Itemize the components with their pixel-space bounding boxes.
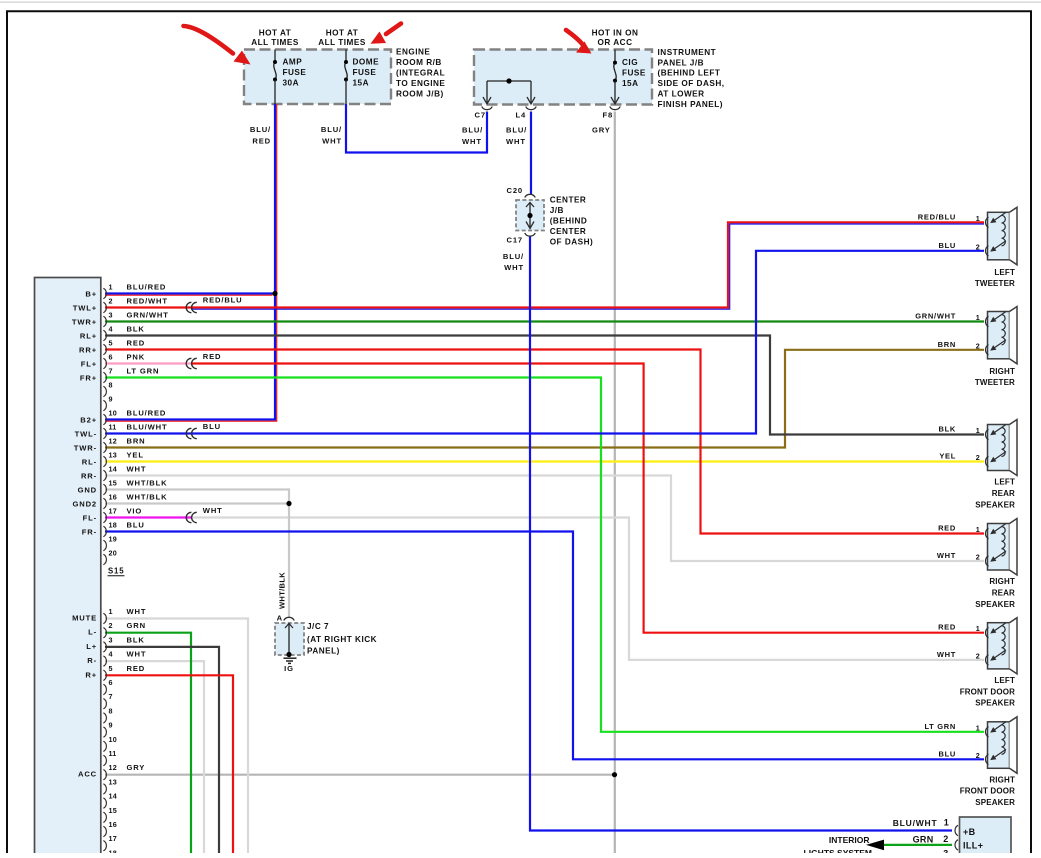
svg-text:1: 1 — [976, 313, 980, 322]
svg-text:L+: L+ — [86, 642, 97, 651]
svg-text:6: 6 — [109, 678, 113, 687]
svg-text:13: 13 — [109, 451, 117, 460]
svg-text:BLU/: BLU/ — [503, 252, 524, 261]
svg-text:9: 9 — [109, 395, 113, 404]
svg-text:BLK: BLK — [127, 325, 145, 334]
svg-text:ILL+: ILL+ — [963, 841, 983, 851]
svg-text:INTERIOR: INTERIOR — [829, 835, 870, 845]
svg-text:16: 16 — [109, 493, 117, 502]
svg-text:LEFT: LEFT — [994, 478, 1015, 487]
svg-text:18: 18 — [109, 848, 117, 853]
svg-text:SPEAKER: SPEAKER — [975, 699, 1015, 708]
svg-text:11: 11 — [109, 423, 117, 432]
svg-text:C7: C7 — [475, 111, 486, 120]
svg-text:20: 20 — [109, 549, 117, 558]
svg-text:FRONT DOOR: FRONT DOOR — [960, 687, 1015, 696]
svg-text:WHT: WHT — [937, 551, 956, 560]
svg-text:FUSE: FUSE — [353, 68, 377, 77]
svg-text:GRN/WHT: GRN/WHT — [127, 311, 169, 320]
svg-text:R+: R+ — [85, 670, 97, 679]
svg-text:LEFT: LEFT — [994, 268, 1015, 277]
svg-text:1: 1 — [976, 525, 980, 534]
svg-text:AT LOWER: AT LOWER — [658, 89, 705, 98]
svg-text:BLU: BLU — [938, 749, 956, 758]
svg-text:WHT: WHT — [322, 136, 342, 145]
svg-text:(BEHIND: (BEHIND — [550, 216, 588, 225]
svg-text:BLU/: BLU/ — [506, 125, 527, 134]
svg-text:5: 5 — [109, 339, 113, 348]
svg-text:2: 2 — [976, 651, 980, 660]
svg-text:TWL+: TWL+ — [73, 304, 97, 313]
svg-text:GRN: GRN — [127, 621, 146, 630]
svg-text:(INTEGRAL: (INTEGRAL — [396, 68, 445, 77]
svg-text:3: 3 — [109, 635, 113, 644]
svg-text:15A: 15A — [622, 79, 639, 88]
svg-text:17: 17 — [109, 834, 117, 843]
svg-text:RIGHT: RIGHT — [989, 775, 1015, 784]
svg-text:19: 19 — [109, 535, 117, 544]
svg-text:RED: RED — [938, 524, 956, 533]
svg-text:A: A — [277, 613, 283, 622]
svg-text:RED: RED — [252, 136, 271, 145]
svg-text:ALL TIMES: ALL TIMES — [318, 38, 366, 47]
svg-text:3: 3 — [943, 849, 948, 854]
svg-text:WHT: WHT — [462, 137, 482, 146]
svg-text:R-: R- — [87, 656, 97, 665]
svg-text:BLU/: BLU/ — [462, 125, 483, 134]
svg-text:2: 2 — [976, 341, 980, 350]
svg-text:TWR-: TWR- — [74, 444, 97, 453]
svg-text:ROOM J/B): ROOM J/B) — [396, 89, 444, 98]
svg-text:RED: RED — [127, 664, 146, 673]
svg-text:LIGHTS SYSTEM: LIGHTS SYSTEM — [804, 848, 872, 853]
svg-text:YEL: YEL — [127, 451, 144, 460]
svg-text:3: 3 — [109, 311, 113, 320]
svg-text:ALL TIMES: ALL TIMES — [251, 38, 299, 47]
svg-text:MUTE: MUTE — [72, 614, 97, 623]
svg-text:OF DASH): OF DASH) — [550, 237, 594, 246]
svg-text:LEFT: LEFT — [994, 676, 1015, 685]
svg-text:BLU/RED: BLU/RED — [127, 409, 167, 418]
svg-text:WHT: WHT — [504, 263, 524, 272]
svg-text:10: 10 — [109, 735, 117, 744]
svg-text:BLU/WHT: BLU/WHT — [127, 423, 168, 432]
svg-text:RL-: RL- — [82, 458, 97, 467]
svg-text:J/B: J/B — [550, 206, 564, 215]
svg-text:9: 9 — [109, 721, 113, 730]
svg-text:REAR: REAR — [992, 588, 1015, 597]
svg-text:HOT AT: HOT AT — [259, 28, 292, 37]
svg-text:4: 4 — [109, 650, 113, 659]
svg-text:AMP: AMP — [283, 58, 303, 67]
svg-text:12: 12 — [109, 763, 117, 772]
svg-text:SIDE OF DASH,: SIDE OF DASH, — [658, 79, 725, 88]
svg-text:WHT: WHT — [127, 607, 147, 616]
svg-text:PNK: PNK — [127, 353, 146, 362]
svg-text:RED: RED — [203, 352, 222, 361]
svg-text:2: 2 — [976, 553, 980, 562]
svg-text:1: 1 — [109, 283, 113, 292]
svg-text:BLU: BLU — [938, 241, 956, 250]
svg-text:IG: IG — [284, 664, 294, 673]
svg-text:BRN: BRN — [127, 437, 146, 446]
svg-text:1: 1 — [976, 723, 980, 732]
svg-text:GRY: GRY — [592, 125, 611, 134]
svg-text:BLK: BLK — [127, 635, 145, 644]
svg-text:SPEAKER: SPEAKER — [975, 798, 1015, 807]
svg-text:2: 2 — [976, 751, 980, 760]
svg-text:TWEETER: TWEETER — [975, 378, 1015, 387]
svg-text:RL+: RL+ — [80, 332, 97, 341]
svg-text:8: 8 — [109, 381, 113, 390]
svg-text:BLU/: BLU/ — [321, 125, 342, 134]
svg-text:1: 1 — [976, 624, 980, 633]
svg-text:BLU/RED: BLU/RED — [127, 283, 167, 292]
svg-text:J/C 7: J/C 7 — [307, 622, 329, 631]
svg-text:15: 15 — [109, 479, 117, 488]
svg-text:GRN: GRN — [913, 834, 934, 844]
svg-text:1: 1 — [109, 607, 113, 616]
svg-text:GRY: GRY — [127, 763, 146, 772]
svg-text:WHT: WHT — [127, 650, 147, 659]
svg-text:WHT: WHT — [506, 137, 526, 146]
svg-text:GRN/WHT: GRN/WHT — [915, 312, 956, 321]
svg-text:11: 11 — [109, 749, 117, 758]
svg-text:B+: B+ — [85, 290, 97, 299]
svg-text:(AT RIGHT KICK: (AT RIGHT KICK — [307, 635, 377, 644]
svg-text:FINISH PANEL): FINISH PANEL) — [658, 100, 723, 109]
svg-text:FL+: FL+ — [81, 360, 97, 369]
svg-text:BLU: BLU — [127, 521, 145, 530]
svg-text:C20: C20 — [507, 186, 523, 195]
svg-text:14: 14 — [109, 792, 117, 801]
svg-text:1: 1 — [944, 818, 949, 828]
svg-text:13: 13 — [109, 777, 117, 786]
svg-text:RR-: RR- — [81, 472, 97, 481]
svg-text:15A: 15A — [353, 79, 370, 88]
svg-text:CENTER: CENTER — [550, 195, 587, 204]
svg-text:INSTRUMENT: INSTRUMENT — [658, 48, 717, 57]
svg-text:RED/BLU: RED/BLU — [918, 212, 956, 221]
svg-text:FUSE: FUSE — [283, 68, 307, 77]
svg-text:CIG: CIG — [622, 58, 638, 67]
svg-text:B2+: B2+ — [80, 416, 97, 425]
svg-text:BLU: BLU — [203, 422, 221, 431]
svg-text:WHT: WHT — [203, 506, 223, 515]
svg-text:18: 18 — [109, 521, 117, 530]
svg-text:GND: GND — [78, 486, 97, 495]
svg-text:14: 14 — [109, 465, 117, 474]
svg-text:2: 2 — [976, 242, 980, 251]
svg-text:WHT: WHT — [127, 465, 147, 474]
svg-text:RED/BLU: RED/BLU — [203, 296, 243, 305]
svg-text:RED: RED — [938, 623, 956, 632]
svg-text:FRONT DOOR: FRONT DOOR — [960, 787, 1015, 796]
svg-text:LT GRN: LT GRN — [924, 722, 956, 731]
svg-text:GND2: GND2 — [73, 500, 98, 509]
svg-text:12: 12 — [109, 437, 117, 446]
svg-text:SPEAKER: SPEAKER — [975, 500, 1015, 509]
svg-text:F8: F8 — [603, 111, 614, 120]
svg-text:SPEAKER: SPEAKER — [975, 600, 1015, 609]
svg-text:L-: L- — [88, 628, 97, 637]
svg-text:C17: C17 — [507, 236, 523, 245]
svg-text:CENTER: CENTER — [550, 227, 587, 236]
svg-text:ROOM R/B: ROOM R/B — [396, 58, 442, 67]
svg-text:YEL: YEL — [939, 452, 956, 461]
svg-text:HOT AT: HOT AT — [326, 28, 359, 37]
svg-text:4: 4 — [109, 325, 113, 334]
svg-text:WHT: WHT — [937, 650, 956, 659]
svg-text:15: 15 — [109, 806, 117, 815]
svg-text:VIO: VIO — [127, 507, 143, 516]
svg-text:1: 1 — [976, 214, 980, 223]
svg-text:2: 2 — [976, 453, 980, 462]
svg-text:PANEL): PANEL) — [307, 646, 340, 655]
svg-text:PANEL J/B: PANEL J/B — [658, 58, 705, 67]
svg-text:TWL-: TWL- — [75, 430, 97, 439]
svg-text:8: 8 — [109, 706, 113, 715]
svg-text:RIGHT: RIGHT — [989, 367, 1015, 376]
svg-text:FUSE: FUSE — [622, 69, 646, 78]
svg-text:10: 10 — [109, 409, 117, 418]
svg-text:TWEETER: TWEETER — [975, 279, 1015, 288]
svg-text:16: 16 — [109, 820, 117, 829]
svg-text:1: 1 — [976, 426, 980, 435]
svg-text:REAR: REAR — [992, 489, 1015, 498]
svg-text:30A: 30A — [283, 79, 300, 88]
svg-text:TO ENGINE: TO ENGINE — [396, 79, 445, 88]
svg-text:FL-: FL- — [83, 514, 97, 523]
svg-text:RED: RED — [127, 339, 146, 348]
svg-text:WHT/BLK: WHT/BLK — [278, 572, 287, 609]
svg-text:FR+: FR+ — [80, 374, 97, 383]
svg-text:ACC: ACC — [78, 770, 97, 779]
svg-text:WHT/BLK: WHT/BLK — [127, 479, 168, 488]
svg-text:ENGINE: ENGINE — [396, 47, 430, 56]
svg-text:(BEHIND LEFT: (BEHIND LEFT — [658, 69, 721, 78]
svg-text:LT GRN: LT GRN — [127, 367, 160, 376]
svg-text:2: 2 — [109, 621, 113, 630]
svg-text:2: 2 — [943, 834, 948, 844]
svg-text:BLU/WHT: BLU/WHT — [893, 818, 938, 828]
svg-text:DOME: DOME — [353, 58, 380, 67]
svg-text:BLU/: BLU/ — [250, 125, 271, 134]
svg-text:L4: L4 — [516, 111, 527, 120]
svg-text:RED/WHT: RED/WHT — [127, 297, 168, 306]
svg-text:OR ACC: OR ACC — [598, 38, 633, 47]
svg-text:2: 2 — [109, 297, 113, 306]
svg-text:7: 7 — [109, 367, 113, 376]
svg-text:6: 6 — [109, 353, 113, 362]
svg-text:HOT IN ON: HOT IN ON — [592, 28, 639, 37]
svg-text:RR+: RR+ — [79, 346, 97, 355]
svg-text:7: 7 — [109, 692, 113, 701]
svg-text:BLK: BLK — [938, 425, 956, 434]
svg-text:RIGHT: RIGHT — [989, 577, 1015, 586]
svg-text:+B: +B — [963, 827, 976, 837]
svg-text:WHT/BLK: WHT/BLK — [127, 493, 168, 502]
svg-text:FR-: FR- — [82, 528, 97, 537]
svg-text:BRN: BRN — [938, 340, 956, 349]
svg-text:S15: S15 — [108, 567, 124, 576]
svg-text:5: 5 — [109, 664, 113, 673]
svg-text:TWR+: TWR+ — [72, 318, 97, 327]
svg-text:17: 17 — [109, 507, 117, 516]
